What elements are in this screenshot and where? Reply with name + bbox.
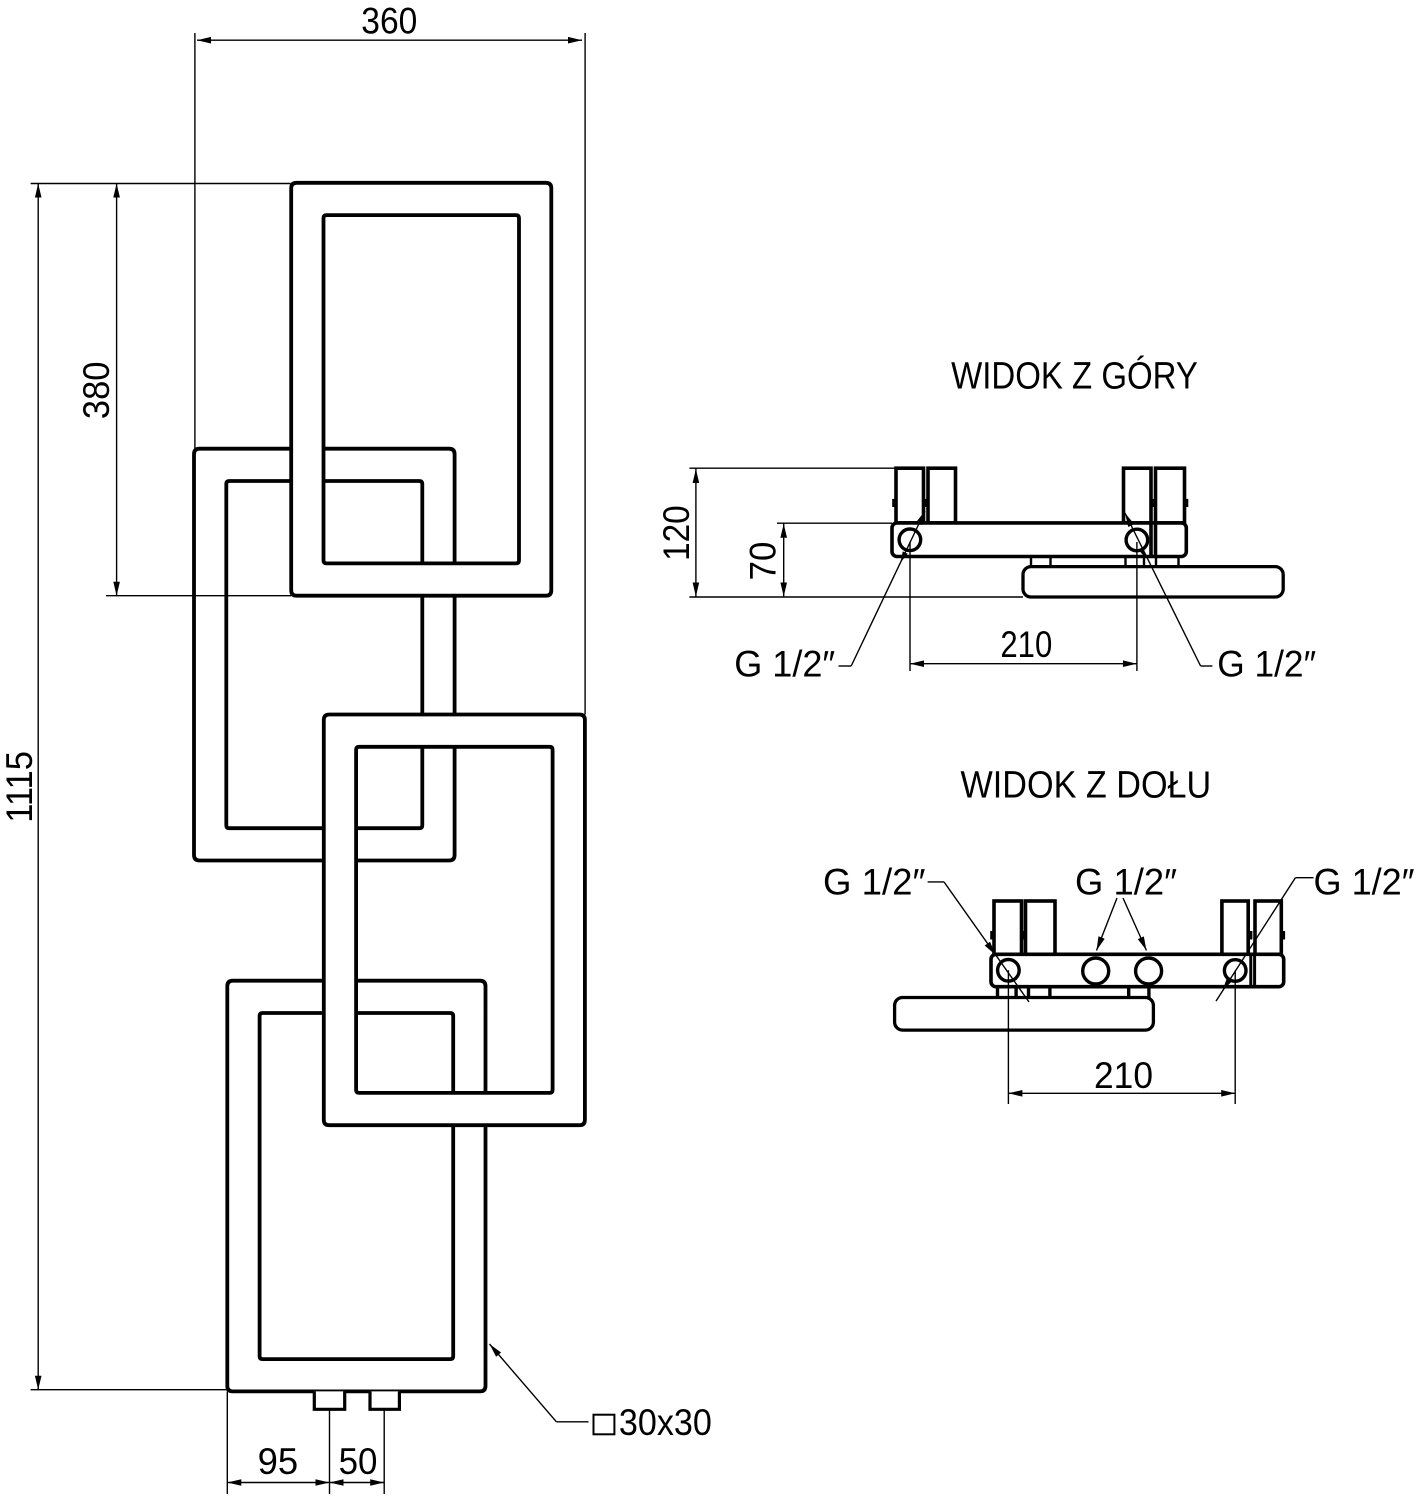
svg-text:380: 380 [76,362,117,420]
svg-text:210: 210 [1094,1055,1153,1096]
svg-text:G 1/2″: G 1/2″ [823,862,926,903]
svg-text:WIDOK Z DOŁU: WIDOK Z DOŁU [961,765,1212,807]
svg-text:G 1/2″: G 1/2″ [734,643,835,684]
svg-text:95: 95 [258,1441,299,1482]
svg-text:1115: 1115 [0,751,40,823]
svg-text:210: 210 [1000,624,1052,665]
svg-text:30x30: 30x30 [619,1402,712,1443]
svg-text:G 1/2″: G 1/2″ [1217,643,1316,684]
svg-text:70: 70 [743,542,784,581]
svg-text:G 1/2″: G 1/2″ [1314,862,1415,903]
svg-text:120: 120 [656,505,697,561]
svg-text:G 1/2″: G 1/2″ [1075,862,1177,903]
svg-text:360: 360 [361,0,417,41]
svg-text:WIDOK Z GÓRY: WIDOK Z GÓRY [951,355,1198,398]
svg-text:50: 50 [339,1441,378,1482]
